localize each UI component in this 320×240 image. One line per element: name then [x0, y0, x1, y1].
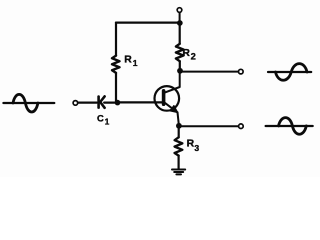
wire input terminal to capacitor: [78, 101, 97, 103]
label R2: [182, 48, 195, 62]
wire R2 branch lower: [179, 61, 181, 70]
node emitter junction: [176, 123, 182, 129]
resistor R2: [176, 44, 184, 61]
node Vcc junction: [177, 20, 183, 26]
wire R2 branch upper: [179, 23, 181, 44]
capacitor C1: [99, 96, 105, 107]
wire base node to transistor base: [118, 101, 164, 103]
input signal sine wave: [3, 94, 54, 112]
svg-text:R: R: [124, 55, 132, 66]
wire to Vcc terminal: [179, 12, 181, 22]
output sine wave top (inverted): [268, 64, 311, 81]
wire emitter lead: [178, 112, 179, 125]
wire R1 branch lower: [115, 73, 117, 103]
svg-text:1: 1: [133, 58, 138, 68]
wire emitter output: [179, 125, 239, 127]
svg-text:3: 3: [194, 143, 199, 153]
transistor Q1: [155, 86, 180, 112]
node collector junction: [177, 68, 183, 74]
input terminal: [73, 101, 78, 106]
resistor R1: [112, 56, 120, 73]
wire collector lead: [164, 71, 180, 93]
terminal output bottom: [239, 124, 244, 129]
terminal output top: [239, 69, 244, 74]
wire R3 to ground: [178, 156, 180, 169]
label C1: [97, 113, 110, 127]
svg-text:R: R: [182, 48, 190, 59]
svg-text:1: 1: [105, 117, 110, 127]
wire R3 branch upper: [178, 126, 180, 138]
node base junction: [115, 100, 121, 106]
label R3: [187, 138, 200, 153]
wire collector output: [180, 71, 238, 73]
wire capacitor to base node: [104, 101, 117, 103]
output sine wave bottom (in phase): [266, 118, 313, 135]
ground: [172, 170, 185, 175]
svg-text:2: 2: [191, 51, 196, 62]
terminal Vcc: [177, 8, 182, 13]
wire R1 branch upper: [115, 23, 117, 56]
wire top rail: [116, 22, 180, 24]
resistor R3: [175, 137, 183, 155]
svg-text:C: C: [97, 113, 104, 124]
label R1: [124, 55, 138, 68]
svg-text:R: R: [187, 138, 195, 149]
